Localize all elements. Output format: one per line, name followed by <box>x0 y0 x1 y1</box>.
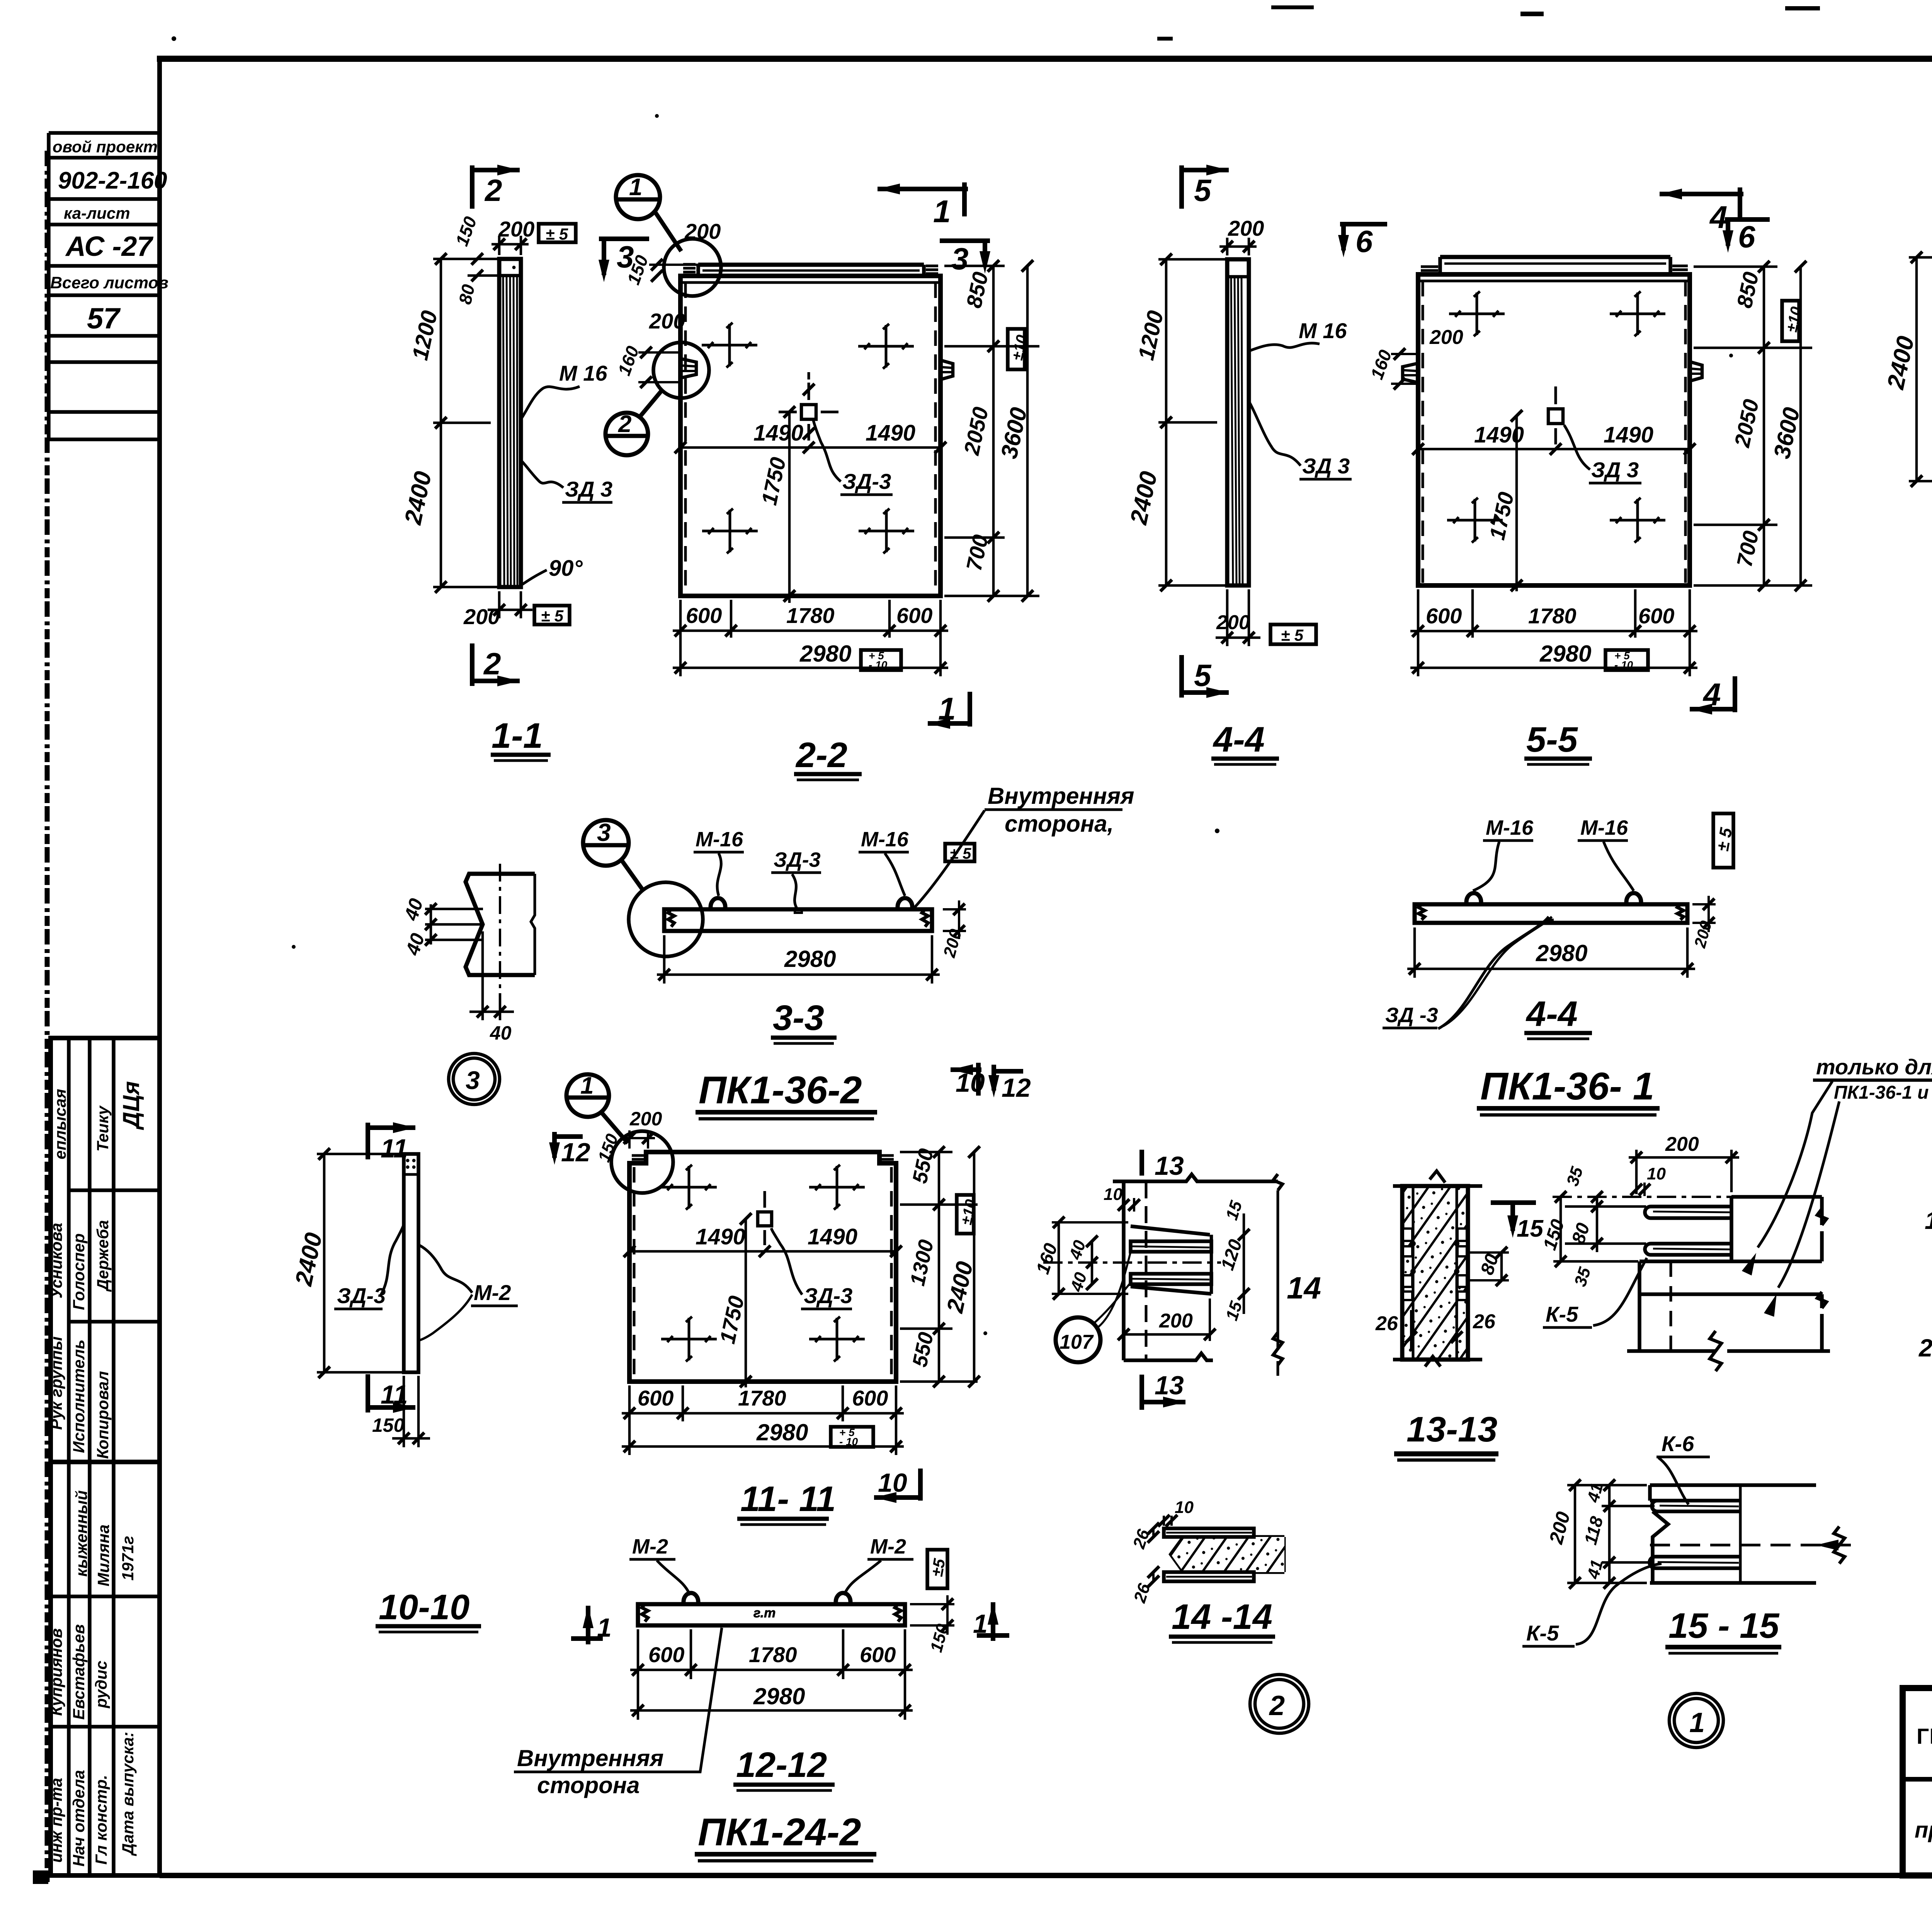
svg-text:± 5: ± 5 <box>1281 626 1304 644</box>
dim 200 right (3-3) <box>943 908 966 910</box>
svg-text:ПК1-36-1 и ПК1-36-2: ПК1-36-1 и ПК1-36-2 <box>1834 1082 1932 1103</box>
detail circle at lip corner <box>664 239 721 296</box>
svg-text:200: 200 <box>684 219 721 243</box>
slab below (К-5) <box>1627 1261 1830 1371</box>
axis dash-dot (107) <box>1043 1261 1221 1264</box>
svg-text:М-2: М-2 <box>632 1535 668 1558</box>
svg-text:рудис: рудис <box>92 1661 110 1709</box>
svg-text:М-2: М-2 <box>474 1280 511 1305</box>
balloon 2 (bottom) <box>1250 1675 1309 1733</box>
svg-text:1: 1 <box>938 691 956 727</box>
svg-text:ЗД-3: ЗД-3 <box>842 469 891 494</box>
dim 200 top (1-1) <box>492 236 529 255</box>
svg-text:600: 600 <box>686 603 722 628</box>
top lip rail <box>698 263 924 267</box>
grooves white boxes <box>1403 1229 1467 1300</box>
svg-text:Рук группы: Рук группы <box>47 1336 65 1430</box>
svg-text:4-4: 4-4 <box>1526 994 1578 1034</box>
svg-text:ЗД -3: ЗД -3 <box>1385 1004 1438 1027</box>
svg-text:10: 10 <box>1175 1498 1194 1517</box>
svg-text:200: 200 <box>498 217 534 241</box>
svg-text:1490: 1490 <box>866 420 915 446</box>
svg-text:М 16: М 16 <box>1299 318 1347 343</box>
lifting hooks (3-3) <box>711 898 725 909</box>
svg-text:Куприянов: Куприянов <box>47 1628 65 1716</box>
right dims 15/120/15 (107) <box>1243 1213 1245 1314</box>
svg-text:1: 1 <box>580 1072 594 1099</box>
svg-text:13-13: 13-13 <box>1406 1410 1497 1449</box>
svg-text:4: 4 <box>1702 677 1721 712</box>
svg-text:3: 3 <box>597 819 611 846</box>
section mark 11 bottom (10-10) <box>368 1374 415 1412</box>
svg-text:Миляна: Миляна <box>94 1525 112 1586</box>
svg-text:1: 1 <box>629 174 642 201</box>
left margin perforation line <box>45 151 50 1882</box>
svg-text:200: 200 <box>463 604 500 629</box>
svg-text:Усникова: Усникова <box>47 1223 65 1298</box>
svg-text:600: 600 <box>1426 604 1462 628</box>
body 15-15 <box>1650 1485 1816 1583</box>
section mark 13 top <box>1139 1150 1144 1176</box>
panel 4-4 body <box>1227 259 1249 585</box>
upper sidebar stamp table <box>49 133 160 439</box>
left dim 160 (107) <box>1058 1222 1060 1294</box>
svg-text:2: 2 <box>483 647 501 681</box>
svg-text:1780: 1780 <box>749 1642 797 1667</box>
svg-text:12: 12 <box>1002 1073 1031 1103</box>
svg-text:1. Армирование и спецификаци: 1. Армирование и спецификацию панелей <box>1925 1207 1932 1234</box>
svg-text:Евстафьев: Евстафьев <box>70 1624 88 1720</box>
svg-text:1780: 1780 <box>738 1386 786 1410</box>
crosses (11-11) <box>661 1165 717 1210</box>
dim 40 bottom of groove <box>469 931 514 1020</box>
balloon 1 callout (11-11) <box>566 1074 628 1143</box>
svg-text:Теику: Теику <box>94 1105 112 1152</box>
centre embed + ЗД-3 (11-11) <box>758 1191 772 1245</box>
svg-text:М-16: М-16 <box>1486 816 1534 839</box>
right hook <box>940 360 953 379</box>
svg-text:сторона,: сторона, <box>1005 811 1114 837</box>
svg-text:АС -27: АС -27 <box>65 231 153 262</box>
svg-text:200: 200 <box>1665 1133 1699 1156</box>
svg-text:Внутренняя: Внутренняя <box>988 783 1134 809</box>
svg-text:3: 3 <box>617 240 634 274</box>
svg-text:ка-лист: ка-лист <box>64 204 130 222</box>
detail circle at left hook <box>653 342 709 398</box>
balloon 3 <box>583 820 643 890</box>
svg-text:производительностью: производительностью <box>1915 1817 1932 1843</box>
panel face lines <box>1122 1181 1126 1360</box>
svg-text:г.т: г.т <box>753 1606 776 1620</box>
svg-text:4: 4 <box>1709 200 1728 235</box>
svg-text:Исполнитель: Исполнитель <box>70 1339 88 1453</box>
svg-text:М-16: М-16 <box>861 828 909 851</box>
svg-text:1490: 1490 <box>1604 422 1653 448</box>
left hook pointing out (5-5) <box>1403 363 1418 383</box>
left dims 1200/2400 (1-1) <box>433 259 499 587</box>
svg-text:200: 200 <box>1429 326 1463 349</box>
section mark 4 bottom (5-5) <box>1690 676 1736 712</box>
svg-text:14 -14: 14 -14 <box>1172 1597 1272 1637</box>
svg-text:К-5: К-5 <box>1546 1302 1578 1326</box>
svg-text:1: 1 <box>597 1613 612 1642</box>
svg-text:Всего листов: Всего листов <box>50 274 168 292</box>
svg-text:600: 600 <box>896 603 932 628</box>
dim 80 (13-13) <box>1468 1251 1509 1254</box>
section mark 3 left (2-2) <box>599 239 649 275</box>
panel 1-1 body <box>499 259 521 587</box>
crosses (5-5) <box>1449 291 1505 336</box>
svg-text:3: 3 <box>466 1066 480 1094</box>
svg-text:М 16: М 16 <box>559 361 607 385</box>
section mark 11 top <box>368 1123 415 1159</box>
svg-text:сторона: сторона <box>537 1772 640 1798</box>
svg-text:902-2-160: 902-2-160 <box>58 167 167 194</box>
svg-text:1: 1 <box>1689 1707 1705 1738</box>
svg-text:12-12: 12-12 <box>736 1745 827 1785</box>
tolerance box ±5 (1-1 top) <box>539 224 576 242</box>
dim 1750 (11-11) <box>745 1219 747 1387</box>
svg-text:ЗД-3: ЗД-3 <box>774 848 821 871</box>
section mark 4 top-right (5-5) <box>1660 187 1743 221</box>
dims 40/40 left of groove <box>425 904 483 944</box>
svg-text:13: 13 <box>1155 1371 1184 1400</box>
±10 box + dim 2400 (11-11) <box>957 1195 974 1234</box>
svg-text:6: 6 <box>1738 220 1755 254</box>
svg-text:Нач отдела: Нач отдела <box>70 1770 88 1867</box>
section mark 1 top-right (2-2) <box>878 182 968 216</box>
dim 2980 (strip 4-4) <box>1407 927 1695 978</box>
bottom edge + section 13 bottom (107) <box>1124 1353 1213 1360</box>
corner fingers left <box>683 267 696 270</box>
svg-text:еплысая: еплысая <box>51 1089 69 1159</box>
dashed inner verticals <box>684 282 687 593</box>
svg-text:1971г: 1971г <box>119 1536 137 1581</box>
svg-text:кыженный: кыженный <box>72 1490 90 1577</box>
panel 11-11 outline <box>629 1152 896 1382</box>
svg-text:26: 26 <box>1473 1310 1496 1333</box>
right panel block (К-5) <box>1731 1197 1827 1261</box>
svg-text:6: 6 <box>1355 224 1373 259</box>
svg-text:90°: 90° <box>549 556 583 581</box>
svg-text:Голоспер: Голоспер <box>70 1233 88 1310</box>
svg-text:600: 600 <box>638 1386 673 1410</box>
svg-text:200: 200 <box>1216 611 1250 634</box>
section mark 1 bottom (2-2) <box>928 692 971 727</box>
svg-text:1780: 1780 <box>1528 604 1577 628</box>
svg-text:овой проект: овой проект <box>53 138 158 156</box>
svg-text:- 10: - 10 <box>839 1436 858 1448</box>
svg-text:12: 12 <box>561 1138 590 1167</box>
panel 2-2 outline <box>680 264 953 596</box>
svg-text:10: 10 <box>1104 1185 1122 1204</box>
svg-text:200: 200 <box>1159 1310 1193 1332</box>
dash-dot axis top <box>1553 1196 1739 1198</box>
svg-text:11: 11 <box>381 1380 408 1409</box>
section mark 15 (13-13) <box>1491 1203 1536 1231</box>
dim 2980 (3-3) <box>657 935 940 984</box>
left hook <box>680 359 696 378</box>
svg-text:Держеба: Держеба <box>94 1220 112 1292</box>
svg-text:13: 13 <box>1155 1151 1184 1181</box>
bottom dims (11-11) <box>622 1385 904 1455</box>
svg-text:ЗД-3: ЗД-3 <box>337 1283 386 1308</box>
tolerance ±10 + dim 3600 (5-5) <box>1782 301 1799 341</box>
svg-text:600: 600 <box>852 1386 888 1410</box>
section mark 6 right (5-5) <box>1725 220 1770 246</box>
svg-text:± 5: ± 5 <box>950 845 971 862</box>
svg-text:200: 200 <box>629 1108 662 1130</box>
centre embed (5-5) <box>1548 386 1563 444</box>
svg-text:2980: 2980 <box>756 1419 808 1445</box>
centre horizontal axis with 1490 dims (2-2) <box>680 446 940 449</box>
tolerance box ±10 vertical (2-2) <box>1008 329 1025 369</box>
svg-text:200: 200 <box>649 309 685 333</box>
svg-text:М-16: М-16 <box>1580 816 1628 839</box>
svg-text:Гл констр.: Гл констр. <box>92 1775 110 1865</box>
svg-text:40: 40 <box>490 1022 512 1044</box>
svg-text:ЗД-3: ЗД-3 <box>804 1283 852 1308</box>
svg-text:Дата выпуска:: Дата выпуска: <box>119 1732 137 1856</box>
top edge line with break <box>1113 1174 1278 1181</box>
left dim 2400 (7-7) <box>1909 257 1932 481</box>
dim 1750 (5-5) <box>1515 416 1518 591</box>
svg-text:11- 11: 11- 11 <box>740 1479 836 1519</box>
bottom dim chain 600/1780/600 (2-2) <box>673 600 948 676</box>
section trace 14-14 right (107) <box>1273 1174 1282 1190</box>
svg-text:± 5: ± 5 <box>1713 826 1736 853</box>
section mark 5 top <box>1182 165 1229 209</box>
svg-text:Внутренняя: Внутренняя <box>517 1745 663 1771</box>
detail circle left end 3-3 <box>629 882 703 956</box>
left dims 1200/2400 (4-4) <box>1158 259 1227 585</box>
crosses (2-2) <box>702 323 757 368</box>
dim 150 right (12-12) <box>910 1603 954 1605</box>
svg-text:600: 600 <box>648 1642 684 1667</box>
svg-text:± 5: ± 5 <box>541 607 564 625</box>
svg-text:10: 10 <box>956 1068 985 1098</box>
svg-text:10: 10 <box>1647 1164 1666 1183</box>
detail circle top-left corner (11-11) <box>611 1131 673 1193</box>
svg-text:ЗД 3: ЗД 3 <box>1302 454 1350 478</box>
svg-text:К-6: К-6 <box>1662 1431 1694 1456</box>
svg-text:Копировал: Копировал <box>94 1371 112 1459</box>
svg-text:ПК1-24-2: ПК1-24-2 <box>698 1811 861 1854</box>
dim 200 bottom (1-1) <box>488 591 532 618</box>
dashed axis with arrow (15-15) <box>1650 1544 1859 1547</box>
svg-text:2: 2 <box>1269 1690 1285 1721</box>
balloon 3 (double circle) <box>449 1053 500 1104</box>
svg-text:ПК1-36-2: ПК1-36-2 <box>699 1069 862 1112</box>
svg-text:600: 600 <box>860 1642 896 1667</box>
svg-text:ЗД 3: ЗД 3 <box>1591 458 1639 482</box>
fork plates (К-5) <box>1645 1207 1731 1255</box>
section mark 10 bottom-right (11-11) <box>874 1469 922 1501</box>
svg-text:±5: ±5 <box>928 1557 949 1578</box>
centre axis + 1490s (11-11) <box>629 1250 896 1253</box>
long leader with two arrows to К-5 detail <box>1758 1081 1832 1247</box>
svg-text:1: 1 <box>933 194 951 229</box>
svg-text:М-16: М-16 <box>696 828 743 851</box>
balloon 1 (bottom) <box>1669 1693 1723 1748</box>
section mark 5 bottom (4-4) <box>1182 655 1229 698</box>
section marks 10/12 top-right (11-11) <box>951 1063 1023 1096</box>
svg-text:ПК1-36- 1: ПК1-36- 1 <box>1480 1065 1654 1108</box>
svg-text:2980: 2980 <box>1539 641 1591 667</box>
svg-text:1490: 1490 <box>696 1224 745 1249</box>
svg-text:К-5: К-5 <box>1526 1621 1559 1645</box>
svg-text:3-3: 3-3 <box>773 998 824 1038</box>
section mark 2 bottom (1-1) <box>472 643 520 686</box>
centre axis 1490/1490 (5-5) <box>1418 448 1690 451</box>
section mark 2 top (view 1-1) <box>472 165 520 209</box>
svg-text:10-10: 10-10 <box>379 1588 469 1627</box>
dims 200 / 41 118 41 (15-15) <box>1567 1485 1655 1583</box>
section mark 3 right (2-2) <box>940 241 990 267</box>
balloon 2 (detail callout) <box>605 390 662 455</box>
bottom dims (5-5) <box>1410 589 1697 676</box>
svg-text:- 10: - 10 <box>1614 659 1633 671</box>
svg-text:3: 3 <box>951 242 969 276</box>
svg-text:- 10: - 10 <box>869 659 888 671</box>
svg-text:600: 600 <box>1638 604 1674 628</box>
svg-text:10: 10 <box>878 1468 907 1498</box>
svg-text:2: 2 <box>484 173 502 208</box>
section marks 1/1 (12-12) <box>586 1606 590 1644</box>
balloon 1 (detail callout) <box>616 175 681 251</box>
centre embed ЗД-3 (2-2) <box>779 372 838 441</box>
svg-text:2. Закладные детали ЗД-3, М: 2. Закладные детали ЗД-3, М-2 и М-16 смо… <box>1918 1334 1932 1362</box>
section mark 12 top-left (11-11) <box>554 1132 583 1158</box>
title block <box>1903 1688 1932 1875</box>
dim 200 bottom + ±5 (4-4) <box>1216 589 1260 646</box>
dim 200 top (4-4) <box>1219 238 1257 255</box>
svg-text:5: 5 <box>1194 173 1212 208</box>
dim 150 bottom (10-10) <box>392 1376 430 1447</box>
right dim chain 850/2050/700 (2-2) <box>944 266 1039 596</box>
panel 10-10 body <box>404 1154 418 1372</box>
svg-text:1: 1 <box>973 1609 988 1639</box>
dim 200 top <box>1629 1150 1739 1194</box>
svg-text:1490: 1490 <box>808 1224 857 1249</box>
balloon 107 <box>1056 1317 1100 1362</box>
dims 600/1780/600 + 2980 (12-12) <box>630 1629 913 1720</box>
svg-text:2-2: 2-2 <box>795 735 847 775</box>
svg-text:200: 200 <box>1228 216 1264 240</box>
svg-text:5: 5 <box>1194 658 1212 693</box>
svg-text:5-5: 5-5 <box>1526 720 1578 759</box>
svg-text:57: 57 <box>87 302 121 335</box>
dims 40/40 (107) <box>1091 1241 1094 1284</box>
svg-text:15: 15 <box>1517 1215 1544 1242</box>
tolerance ±5 vertical box (strip 4-4) <box>1713 813 1733 868</box>
strip 3-3 body <box>664 909 932 931</box>
lower sidebar signature table <box>51 1038 160 1875</box>
svg-text:2980: 2980 <box>1536 940 1587 966</box>
±5 box (12-12) <box>927 1550 947 1588</box>
fork wedge outline <box>1131 1226 1211 1294</box>
svg-text:1780: 1780 <box>786 603 835 628</box>
tolerance box ±5 (3-3) <box>945 844 975 861</box>
svg-text:2980: 2980 <box>799 641 851 667</box>
svg-text:4-4: 4-4 <box>1213 720 1265 759</box>
right hook (5-5) <box>1690 362 1702 381</box>
dim 200 right (strip 4-4) <box>1692 903 1716 905</box>
svg-text:1490: 1490 <box>753 420 803 446</box>
corner fingers right <box>926 265 938 267</box>
svg-text:15 - 15: 15 - 15 <box>1668 1606 1780 1646</box>
svg-text:2980: 2980 <box>753 1683 805 1709</box>
svg-text:107: 107 <box>1060 1331 1094 1353</box>
svg-text:ГИПРОТРУБОПРОВОД: ГИПРОТРУБОПРОВОД <box>1917 1724 1932 1749</box>
right dim chain 850/2050/700 (5-5) <box>1694 267 1812 585</box>
svg-text:М-2: М-2 <box>870 1535 906 1558</box>
left dim 2400 (10-10) <box>317 1154 404 1372</box>
svg-text:только для панелей: только для панелей <box>1816 1055 1932 1079</box>
svg-text:ЗД 3: ЗД 3 <box>565 477 612 501</box>
dim 200 bottom (107) <box>1124 1333 1210 1336</box>
svg-text:± 5: ± 5 <box>546 225 568 243</box>
svg-text:ДЦя: ДЦя <box>118 1081 144 1130</box>
svg-text:инж пр-та: инж пр-та <box>47 1778 65 1863</box>
right dim chain 550/1300/550 (11-11) <box>900 1152 978 1382</box>
svg-text:150: 150 <box>372 1414 405 1436</box>
dim 1750 vertical (2-2) <box>788 412 791 603</box>
svg-text:2: 2 <box>618 411 631 437</box>
svg-text:1-1: 1-1 <box>492 716 543 756</box>
svg-text:2980: 2980 <box>784 946 836 972</box>
svg-text:14: 14 <box>1287 1271 1321 1305</box>
right dim 3600 (2-2) <box>1026 266 1029 596</box>
section mark 6 (between 4-4 and 5-5) <box>1340 224 1387 250</box>
svg-text:26: 26 <box>1375 1312 1398 1335</box>
